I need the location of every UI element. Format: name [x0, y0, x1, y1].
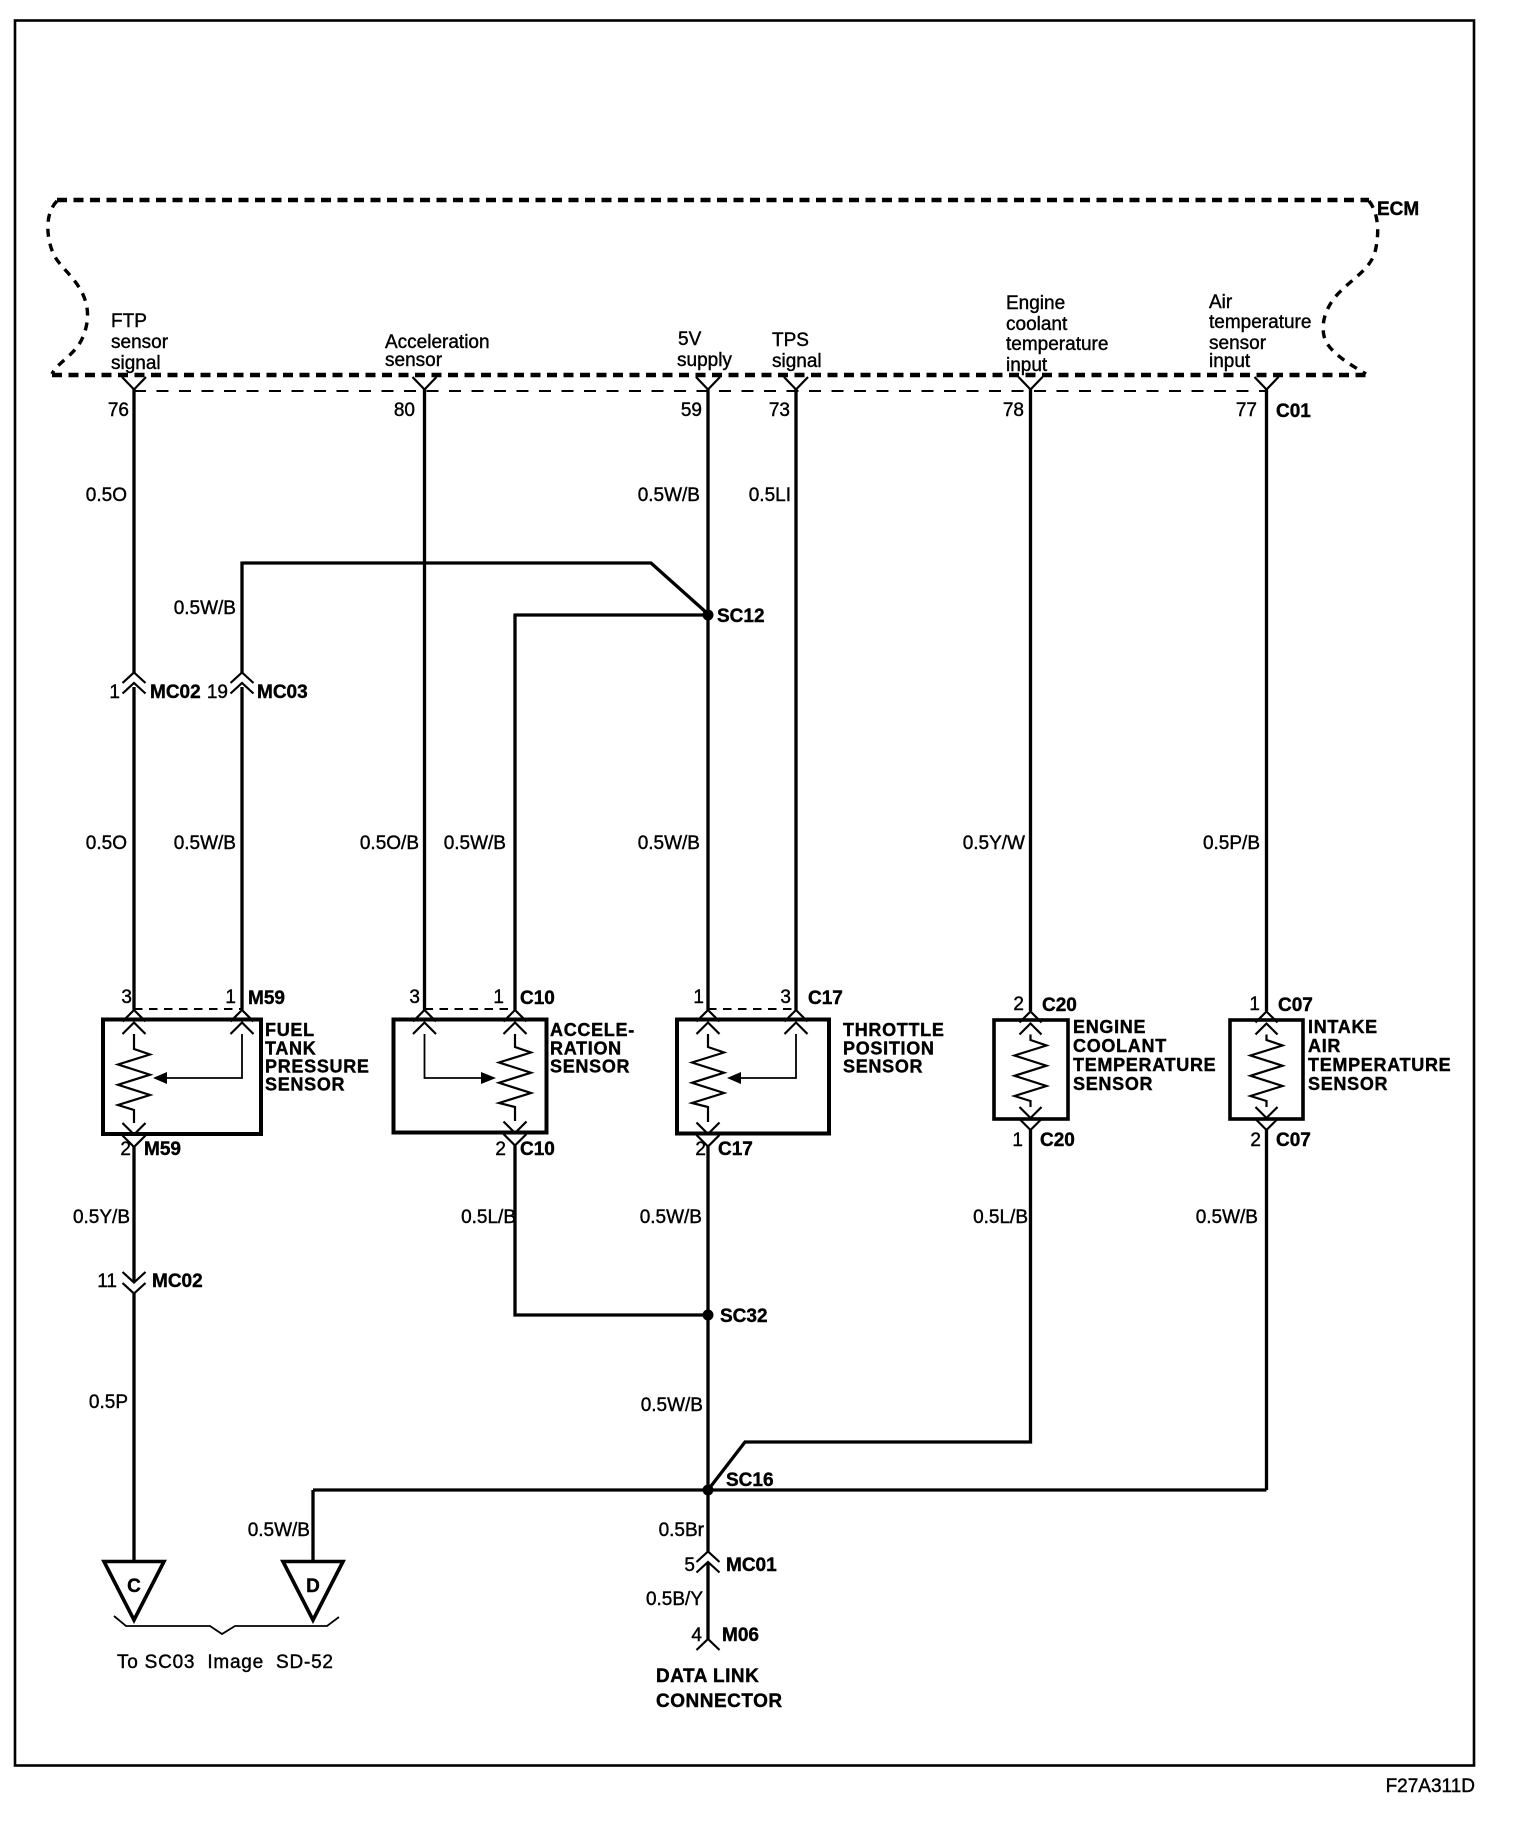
- svg-text:input: input: [1209, 351, 1251, 372]
- svg-text:DATA LINK: DATA LINK: [656, 1666, 759, 1687]
- svg-text:0.5Y/W: 0.5Y/W: [963, 833, 1025, 854]
- ECM pin 73 TPS signal: [769, 330, 822, 421]
- wire SC16 horizontal from triangle D branch to intake air wire: [313, 1488, 1267, 1491]
- wiper arrow inside throttle position sensor: [740, 1034, 796, 1078]
- wire 0.5Y/W from pin 78 to coolant temp sensor pin 2: [1029, 389, 1032, 1011]
- fuel tank pressure sensor name: [265, 1020, 370, 1095]
- svg-text:ENGINE: ENGINE: [1073, 1017, 1146, 1037]
- wire TPS signal 0.5LI from pin 73 to throttle sensor pin 3: [794, 389, 797, 1010]
- svg-text:3: 3: [121, 987, 132, 1008]
- connector MC03 pin 19 (in-line, chevrons up): [207, 673, 308, 704]
- svg-text:3: 3: [409, 987, 420, 1008]
- svg-text:78: 78: [1003, 400, 1024, 421]
- svg-text:POSITION: POSITION: [843, 1039, 935, 1059]
- wire 0.5Br from SC16 to MC01: [706, 1490, 709, 1552]
- C10 pin 3 connector chevrons: [413, 1010, 436, 1034]
- svg-text:To SC03 Image SD-52: To SC03 Image SD-52: [117, 1652, 333, 1673]
- svg-text:C20: C20: [1042, 995, 1077, 1016]
- dashed line between C17 pins 1 and 3: [708, 1008, 796, 1010]
- ECM dashed box bottom edge: [52, 373, 1367, 378]
- ECM pin 78 Engine coolant temperature input: [1003, 293, 1109, 421]
- wire 0.5W/B from SC12 horizontal down to acceleration sensor pin 1: [513, 614, 516, 1011]
- svg-text:temperature: temperature: [1006, 334, 1108, 355]
- svg-text:0.5P: 0.5P: [89, 1392, 128, 1413]
- svg-text:MC01: MC01: [726, 1555, 777, 1576]
- svg-text:0.5W/B: 0.5W/B: [444, 833, 506, 854]
- resistor element inside acceleration sensor: [499, 1034, 531, 1121]
- C17 pin 1 connector chevrons: [697, 1010, 720, 1034]
- svg-text:C01: C01: [1276, 401, 1311, 422]
- wire 0.5W/B branch from SC12 horizontal to MC03: [240, 562, 243, 674]
- svg-text:59: 59: [681, 400, 702, 421]
- svg-text:5: 5: [684, 1555, 695, 1576]
- svg-text:0.5O/B: 0.5O/B: [360, 833, 419, 854]
- wire 0.5W/B from SC32 down to SC16: [706, 1315, 709, 1490]
- svg-text:3: 3: [780, 987, 791, 1008]
- ECM pin 76 FTP sensor signal: [108, 311, 169, 421]
- wire 0.5B/Y from MC01 to M06: [706, 1563, 709, 1640]
- svg-text:MC02: MC02: [150, 682, 201, 703]
- svg-text:0.5O: 0.5O: [86, 833, 127, 854]
- svg-text:1: 1: [1012, 1130, 1023, 1151]
- wire 0.5L/B from C20 pin 1 down, left to SC16: [708, 1130, 1031, 1490]
- svg-text:supply: supply: [677, 350, 732, 371]
- svg-text:C17: C17: [808, 988, 843, 1009]
- svg-text:C10: C10: [520, 988, 555, 1009]
- svg-text:THROTTLE: THROTTLE: [843, 1020, 945, 1040]
- fuel tank pressure sensor M59 box: [103, 1020, 261, 1135]
- svg-text:F27A311D: F27A311D: [1386, 1776, 1475, 1797]
- svg-text:SENSOR: SENSOR: [1308, 1074, 1388, 1094]
- wire 0.5W/B from C07 pin 2 down to SC16 horizontal: [1265, 1130, 1268, 1490]
- svg-text:0.5W/B: 0.5W/B: [1196, 1207, 1258, 1228]
- wire 0.5Y/B from M59 pin 2 to MC02 pin 11: [132, 1147, 135, 1282]
- svg-text:SC32: SC32: [720, 1306, 768, 1327]
- svg-text:ACCELE-: ACCELE-: [550, 1020, 635, 1040]
- svg-text:C: C: [127, 1576, 141, 1597]
- connector MC01 pin 5 (in-line, chevrons up): [684, 1552, 777, 1577]
- acceleration sensor C10 box: [394, 1020, 547, 1133]
- wire SC12 upper horizontal 0.5W/B: [242, 563, 708, 614]
- C17 pin 3 connector chevrons: [785, 1010, 808, 1034]
- wire acceleration sensor 0.5O/B from pin 80 to sensor pin 3: [423, 389, 426, 1010]
- engine coolant temperature sensor C20 box: [994, 1020, 1068, 1119]
- svg-text:C07: C07: [1278, 995, 1313, 1016]
- svg-text:11: 11: [97, 1271, 117, 1292]
- svg-text:COOLANT: COOLANT: [1073, 1036, 1167, 1056]
- C07 pin 1 connector chevrons: [1256, 1012, 1278, 1035]
- connector M06 pin 4 (wire end chevron): [691, 1625, 759, 1650]
- C17 pin 2 connector chevrons (down): [697, 1123, 720, 1147]
- svg-text:Engine: Engine: [1006, 293, 1065, 314]
- ECM pin 59 5V supply: [677, 329, 732, 421]
- svg-text:5V: 5V: [678, 329, 702, 350]
- M59 pin 2 connector chevrons (down): [123, 1123, 146, 1147]
- wire SC12 lower horizontal: [515, 613, 708, 616]
- svg-text:0.5Br: 0.5Br: [659, 1520, 705, 1541]
- svg-text:signal: signal: [111, 353, 161, 374]
- svg-text:TEMPERATURE: TEMPERATURE: [1073, 1055, 1216, 1075]
- svg-text:M06: M06: [722, 1625, 759, 1646]
- resistor element inside coolant temperature sensor: [1015, 1035, 1047, 1108]
- C20 pin 1 connector chevrons (down): [1020, 1107, 1042, 1130]
- wire 5V supply 0.5W/B from pin 59 through SC12 to throttle sensor pin 1: [706, 389, 709, 1010]
- svg-text:Air: Air: [1209, 292, 1233, 313]
- svg-text:SENSOR: SENSOR: [550, 1057, 630, 1077]
- svg-text:2: 2: [495, 1139, 506, 1160]
- dashed line between M59 pins 3 and 1: [134, 1008, 242, 1010]
- resistor element inside fuel tank pressure sensor: [118, 1034, 150, 1123]
- C20 pin 2 connector chevrons: [1020, 1012, 1042, 1035]
- DATA LINK CONNECTOR label: [656, 1666, 783, 1712]
- svg-text:73: 73: [769, 400, 790, 421]
- intake air temperature sensor name: [1308, 1017, 1451, 1094]
- acceleration sensor name: [550, 1020, 635, 1077]
- resistor element inside intake air temperature sensor: [1251, 1035, 1283, 1108]
- svg-text:0.5P/B: 0.5P/B: [1203, 833, 1260, 854]
- svg-text:INTAKE: INTAKE: [1308, 1017, 1378, 1037]
- svg-text:1: 1: [109, 682, 120, 703]
- svg-text:SENSOR: SENSOR: [1073, 1074, 1153, 1094]
- C10 pin 1 connector chevrons: [504, 1010, 527, 1034]
- svg-text:80: 80: [394, 400, 415, 421]
- svg-text:AIR: AIR: [1308, 1036, 1341, 1056]
- svg-text:0.5W/B: 0.5W/B: [638, 833, 700, 854]
- svg-text:0.5LI: 0.5LI: [749, 485, 791, 506]
- svg-text:sensor: sensor: [111, 332, 169, 353]
- throttle position sensor C17 box: [677, 1020, 829, 1134]
- svg-text:1: 1: [1249, 994, 1260, 1015]
- svg-text:PRESSURE: PRESSURE: [265, 1057, 370, 1077]
- throttle position sensor name: [843, 1020, 945, 1077]
- svg-text:C17: C17: [718, 1139, 753, 1160]
- svg-text:C10: C10: [520, 1139, 555, 1160]
- intake air temperature sensor C07 box: [1230, 1020, 1303, 1119]
- svg-text:0.5W/B: 0.5W/B: [174, 598, 236, 619]
- svg-text:temperature: temperature: [1209, 312, 1311, 333]
- dashed line between C10 pins 3 and 1: [425, 1008, 516, 1010]
- svg-text:sensor: sensor: [385, 350, 443, 371]
- svg-text:2: 2: [120, 1139, 131, 1160]
- brace under triangles: [114, 1616, 339, 1634]
- wire 0.5O from MC02 to fuel tank pressure sensor pin 3: [132, 687, 135, 1010]
- connector MC02 pin 11 (in-line, chevrons down): [97, 1271, 202, 1294]
- svg-text:TANK: TANK: [265, 1039, 316, 1059]
- svg-text:76: 76: [108, 400, 129, 421]
- wire 0.5P/B from pin 77 to intake air temp sensor pin 1: [1265, 389, 1268, 1011]
- wire 0.5P from MC02 pin 11 to triangle C: [132, 1294, 135, 1563]
- ECM dashed box left wavy edge: [48, 201, 88, 374]
- engine coolant temperature sensor name: [1073, 1017, 1216, 1094]
- svg-text:2: 2: [1250, 1130, 1261, 1151]
- svg-text:input: input: [1006, 355, 1048, 376]
- svg-text:FUEL: FUEL: [265, 1020, 315, 1040]
- wire 0.5W/B branch down to triangle D: [311, 1490, 314, 1562]
- svg-text:1: 1: [493, 987, 504, 1008]
- svg-text:0.5L/B: 0.5L/B: [973, 1207, 1028, 1228]
- svg-text:4: 4: [691, 1625, 702, 1646]
- wire 0.5W/B from MC03 to fuel tank pressure sensor pin 1: [240, 687, 243, 1010]
- wire FTP signal 0.5O from pin 76 to MC02: [132, 389, 135, 673]
- svg-text:CONNECTOR: CONNECTOR: [656, 1691, 783, 1712]
- svg-text:SENSOR: SENSOR: [843, 1057, 923, 1077]
- svg-text:0.5B/Y: 0.5B/Y: [646, 1589, 703, 1610]
- svg-text:RATION: RATION: [550, 1039, 622, 1059]
- svg-text:FTP: FTP: [111, 311, 147, 332]
- svg-text:2: 2: [695, 1139, 706, 1160]
- node SC16 junction: [703, 1485, 714, 1496]
- svg-text:0.5W/B: 0.5W/B: [640, 1207, 702, 1228]
- svg-text:TEMPERATURE: TEMPERATURE: [1308, 1055, 1451, 1075]
- connector MC02 pin 1 (in-line, chevrons up): [109, 673, 200, 704]
- svg-text:1: 1: [225, 987, 236, 1008]
- svg-text:0.5W/B: 0.5W/B: [638, 485, 700, 506]
- svg-text:C07: C07: [1276, 1130, 1311, 1151]
- C10 pin 2 connector chevrons (down): [504, 1122, 527, 1146]
- ECM pin 77 Air temperature sensor input: [1209, 292, 1311, 422]
- svg-text:77: 77: [1236, 400, 1257, 421]
- ECM dashed box right wavy edge: [1323, 201, 1378, 374]
- C07 pin 2 connector chevrons (down): [1256, 1107, 1278, 1130]
- svg-text:0.5Y/B: 0.5Y/B: [73, 1207, 130, 1228]
- svg-text:0.5W/B: 0.5W/B: [174, 833, 236, 854]
- svg-text:C20: C20: [1040, 1130, 1075, 1151]
- svg-text:ECM: ECM: [1377, 199, 1419, 220]
- wiper arrow inside acceleration sensor: [425, 1034, 483, 1078]
- svg-text:SC12: SC12: [717, 606, 765, 627]
- svg-text:0.5O: 0.5O: [86, 485, 127, 506]
- wire 0.5W/B from C17 pin 2 down to SC32: [706, 1147, 709, 1316]
- node SC32 junction: [703, 1310, 714, 1321]
- wiper arrow inside fuel tank pressure sensor: [166, 1034, 242, 1078]
- resistor element inside throttle position sensor: [692, 1034, 724, 1122]
- svg-text:signal: signal: [772, 351, 822, 372]
- M59 pin 3 connector chevrons: [123, 1010, 146, 1034]
- svg-text:M59: M59: [144, 1139, 181, 1160]
- svg-text:1: 1: [693, 987, 704, 1008]
- off-page triangle D: [283, 1562, 343, 1621]
- off-page triangle C: [104, 1562, 164, 1621]
- svg-text:SC16: SC16: [726, 1470, 774, 1491]
- svg-text:SENSOR: SENSOR: [265, 1075, 345, 1095]
- M59 pin 1 connector chevrons: [231, 1010, 254, 1034]
- svg-text:D: D: [306, 1576, 320, 1597]
- ECM dashed box top edge: [57, 198, 1369, 203]
- svg-text:MC03: MC03: [257, 682, 308, 703]
- connector C01 thin dashed line: [134, 390, 1267, 392]
- svg-text:0.5W/B: 0.5W/B: [248, 1520, 310, 1541]
- wire 0.5L/B from C10 pin 2 down to SC32: [515, 1146, 708, 1316]
- node SC12 junction: [703, 610, 714, 621]
- svg-text:TPS: TPS: [772, 330, 809, 351]
- svg-text:M59: M59: [248, 988, 285, 1009]
- svg-text:19: 19: [207, 682, 228, 703]
- ECM pin 80 Acceleration sensor: [385, 332, 490, 421]
- svg-text:0.5L/B: 0.5L/B: [461, 1207, 516, 1228]
- svg-text:0.5W/B: 0.5W/B: [641, 1395, 703, 1416]
- svg-text:2: 2: [1013, 994, 1024, 1015]
- svg-text:coolant: coolant: [1006, 314, 1068, 335]
- svg-text:MC02: MC02: [152, 1271, 203, 1292]
